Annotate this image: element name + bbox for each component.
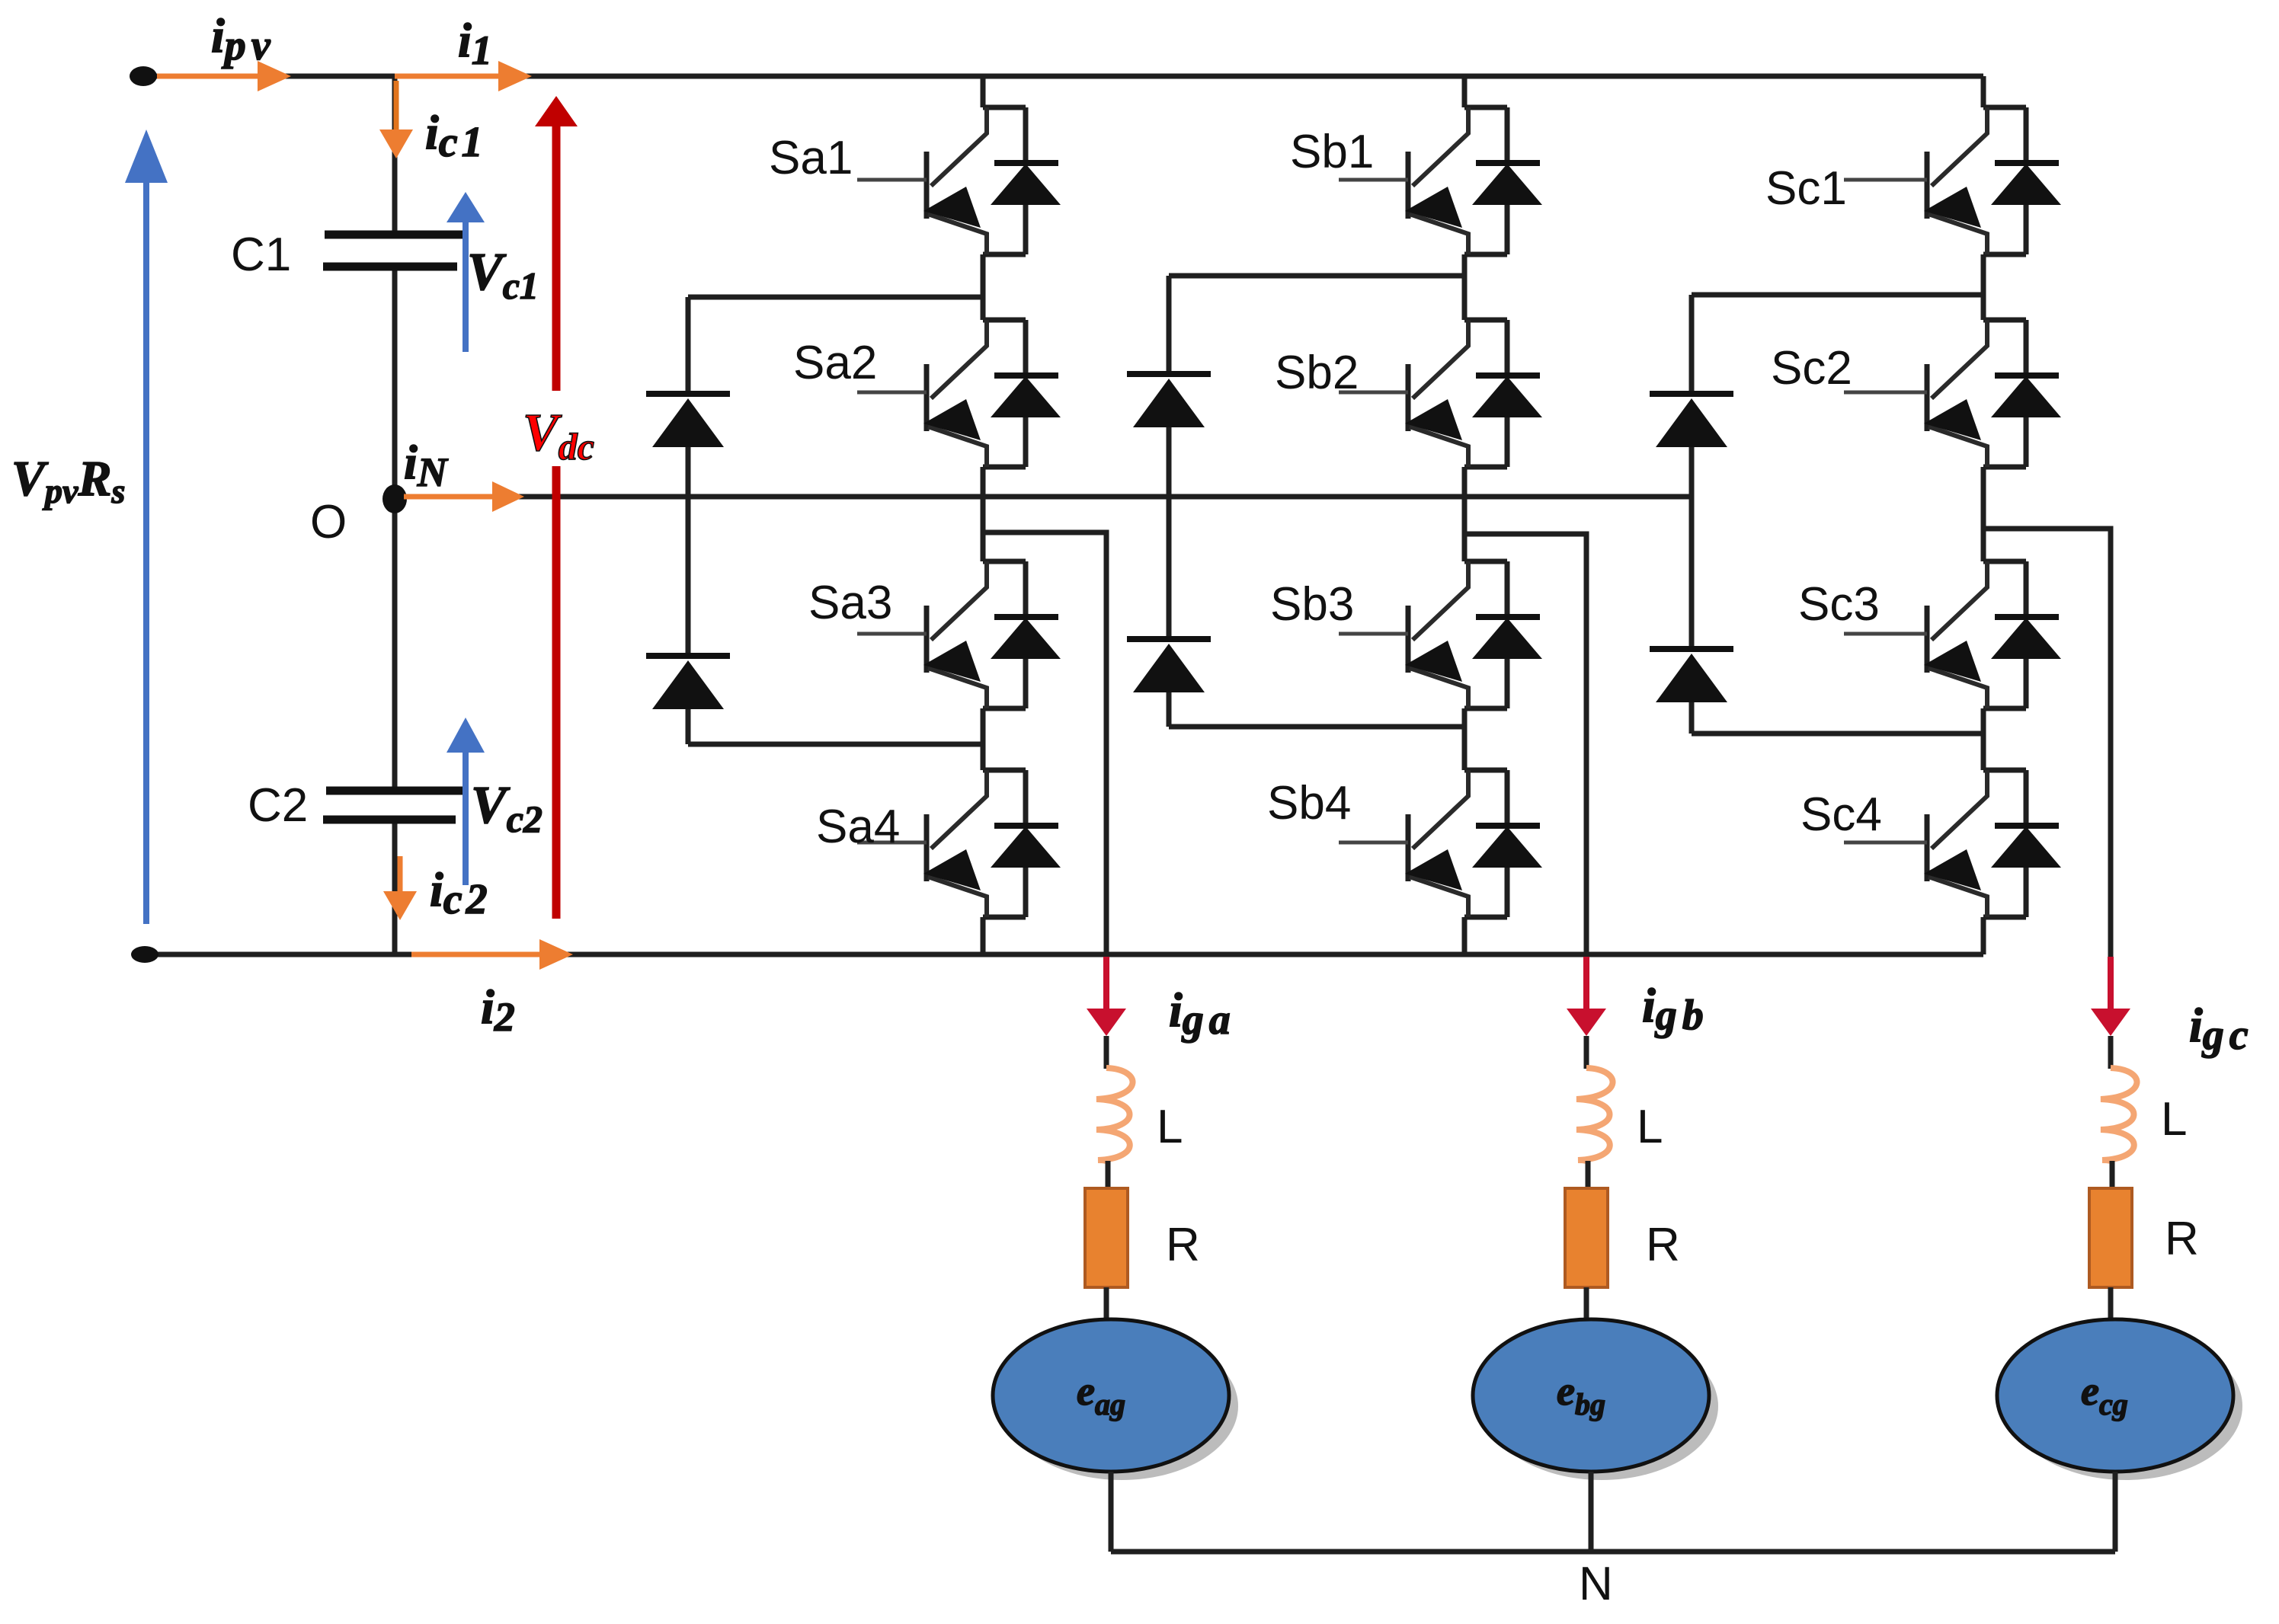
svg-text:C2: C2 <box>248 779 308 832</box>
svg-text:Sc1: Sc1 <box>1765 162 1847 215</box>
svg-text:Sa2: Sa2 <box>793 337 877 389</box>
svg-text:L: L <box>1637 1101 1663 1153</box>
svg-text:Sb3: Sb3 <box>1270 578 1354 631</box>
svg-text:Sc2: Sc2 <box>1771 342 1852 395</box>
svg-text:R: R <box>1166 1219 1200 1271</box>
svg-text:O: O <box>310 496 347 548</box>
svg-text:C1: C1 <box>231 229 291 281</box>
svg-text:L: L <box>1157 1101 1183 1153</box>
svg-text:N: N <box>1579 1558 1613 1610</box>
svg-text:Sb1: Sb1 <box>1290 126 1374 178</box>
svg-text:R: R <box>1646 1219 1680 1271</box>
svg-text:Sb2: Sb2 <box>1275 347 1359 399</box>
svg-text:R: R <box>2165 1213 2199 1265</box>
svg-text:Sa1: Sa1 <box>769 132 853 184</box>
svg-text:Sc4: Sc4 <box>1800 788 1882 841</box>
svg-text:Sa4: Sa4 <box>816 801 900 853</box>
svg-text:Sc3: Sc3 <box>1798 578 1880 631</box>
svg-text:Sa3: Sa3 <box>808 577 892 629</box>
svg-text:Sb4: Sb4 <box>1267 777 1351 830</box>
svg-text:L: L <box>2161 1093 2187 1146</box>
